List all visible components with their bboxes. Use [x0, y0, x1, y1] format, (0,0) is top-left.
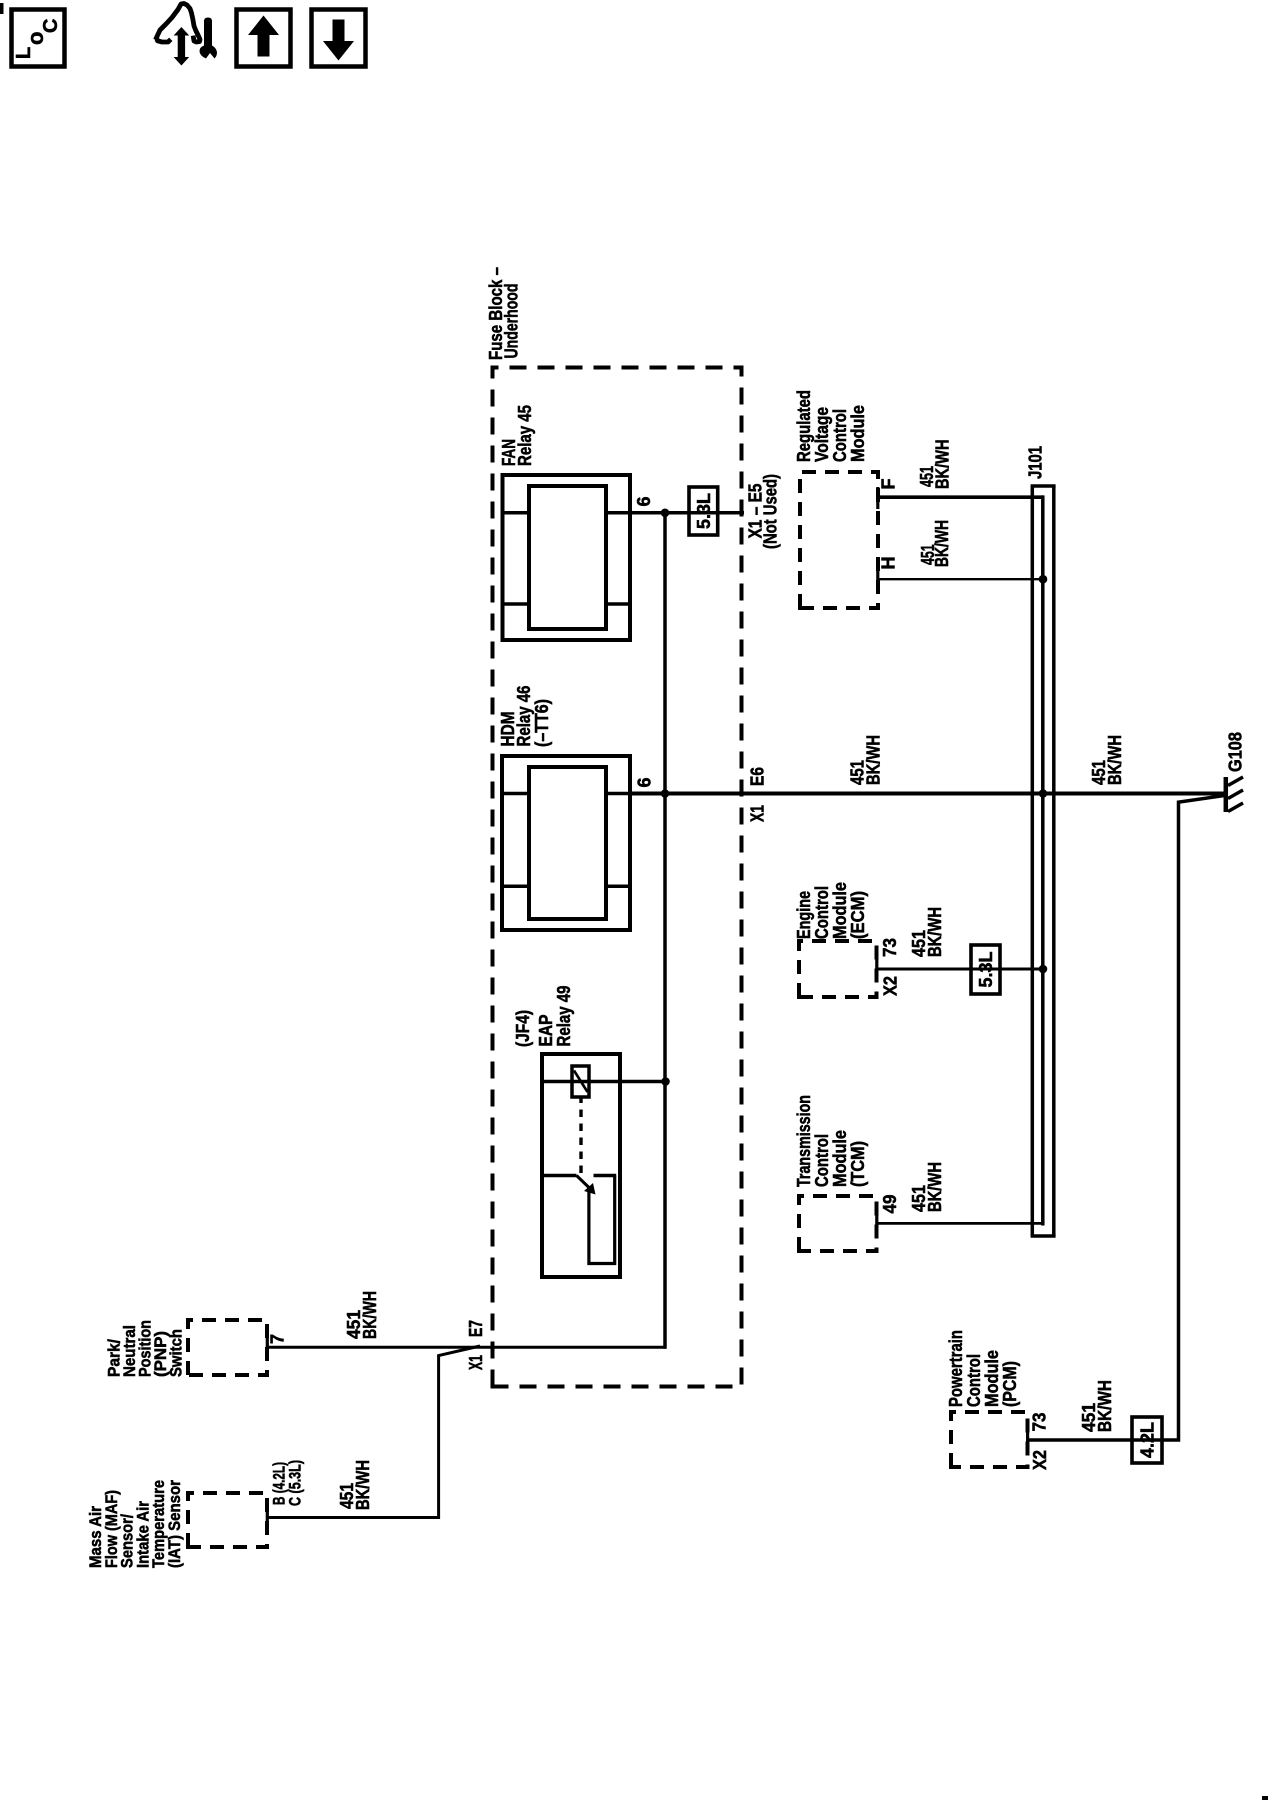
EAP relay coil-contact dashed actuator link [579, 1097, 582, 1173]
wire TCM 49 to J101 [877, 1222, 1043, 1225]
wire PNP pin 7 to fuse block E7 [267, 1346, 667, 1349]
RVCM pin F terminal tick [876, 487, 879, 509]
svg-text:C (5.3L): C (5.3L) [286, 1460, 305, 1506]
svg-text:6: 6 [635, 777, 655, 787]
svg-text:G108: G108 [1226, 732, 1246, 772]
svg-text:X1: X1 [466, 1355, 486, 1370]
scroll up icon box [237, 10, 291, 67]
svg-text:BK/WH: BK/WH [1095, 1380, 1115, 1432]
module Transmission Control Module (TCM) (dashed box) [799, 1196, 877, 1251]
junction dot HDM crossing [661, 789, 670, 798]
svg-text:7: 7 [268, 1334, 288, 1344]
relay HDM Relay 46 (outer cavity) [502, 756, 630, 930]
svg-text:Control: Control [812, 1134, 832, 1187]
svg-text:Module: Module [982, 1350, 1002, 1407]
svg-text:Control: Control [964, 1354, 984, 1407]
fuse 5.3L (FAN branch) [689, 487, 718, 535]
module Mass Air Flow (MAF) / IAT Sensor (dashed box) [188, 1493, 267, 1547]
svg-text:73: 73 [1030, 1413, 1050, 1432]
page corner mark bottom-right [1262, 1796, 1268, 1800]
relay HDM Relay 46 (body) [529, 767, 606, 919]
fuse 4.2L (PCM branch) [1132, 1417, 1162, 1463]
relay FAN Relay 45 (body) [529, 486, 606, 629]
ECM pin 73 terminal tick [875, 958, 878, 980]
svg-text:E6: E6 [748, 767, 768, 786]
svg-text:Powertrain: Powertrain [946, 1330, 966, 1407]
svg-text:(IAT) Sensor: (IAT) Sensor [165, 1480, 184, 1568]
svg-text:5.3L: 5.3L [976, 952, 996, 988]
module Park/Neutral Position (PNP) Switch (dashed box) [188, 1320, 267, 1375]
svg-text:73: 73 [880, 938, 900, 957]
svg-text:BK/WH: BK/WH [932, 520, 952, 567]
junction dot EAP branch [661, 1077, 670, 1086]
relay FAN Relay 45 (outer cavity) [503, 475, 631, 640]
svg-text:Control: Control [812, 886, 832, 939]
wire ECM 73 to J101 through 5.3L fuse [877, 968, 1044, 971]
svg-text:X2: X2 [881, 976, 901, 996]
junction dot ground wire at J101 [1039, 789, 1048, 798]
wire EAP coil to bus [542, 1080, 667, 1084]
wire FAN relay pin 6 to 5.3L fuse and X1-E5 [630, 511, 744, 515]
fuse block - underhood (dashed outline) [493, 368, 742, 1387]
scroll down icon box [312, 10, 366, 67]
wire MAF to splice on PNP wire [267, 1346, 480, 1518]
svg-text:(TCM): (TCM) [848, 1141, 868, 1187]
TCM pin 49 terminal tick [875, 1213, 878, 1235]
wire ground bus across fuse block [663, 511, 667, 1349]
svg-text:(JF4): (JF4) [513, 1010, 533, 1047]
svg-text:Underhood: Underhood [502, 284, 522, 359]
svg-text:BK/WH: BK/WH [864, 735, 884, 785]
EAP relay fixed contact and internal path [594, 1174, 617, 1177]
svg-text:Switch: Switch [167, 1329, 186, 1377]
relay EAP Relay 49 (outer box) [542, 1054, 620, 1277]
svg-text:Module: Module [830, 1130, 850, 1187]
svg-text:BK/WH: BK/WH [360, 1291, 380, 1339]
junction dot FAN branch [661, 509, 670, 518]
svg-text:F: F [879, 479, 899, 490]
svg-text:Relay 49: Relay 49 [554, 986, 574, 1047]
RVCM pin H terminal tick [876, 569, 879, 591]
svg-text:BK/WH: BK/WH [925, 1162, 945, 1212]
EAP relay contact feed [542, 1174, 577, 1177]
PNP pin 7 terminal tick [266, 1337, 269, 1359]
svg-text:C: C [40, 19, 62, 33]
svg-text:Voltage: Voltage [812, 407, 832, 462]
svg-text:E7: E7 [466, 1320, 486, 1337]
adjust tools icon (outline, double arrow, wrench) [157, 4, 201, 43]
svg-text:Relay 45: Relay 45 [515, 405, 535, 466]
PCM pin 73 terminal tick [1026, 1429, 1029, 1451]
svg-text:BK/WH: BK/WH [1105, 735, 1125, 785]
svg-text:BK/WH: BK/WH [925, 907, 945, 957]
svg-text:Module: Module [830, 882, 850, 939]
svg-text:6: 6 [634, 496, 654, 506]
page corner mark top-left [0, 3, 4, 14]
svg-text:(Not Used): (Not Used) [761, 474, 781, 549]
HDM relay terminal stubs [502, 884, 529, 888]
svg-text:Engine: Engine [794, 891, 814, 939]
svg-text:Relay 46: Relay 46 [514, 686, 534, 747]
EAP relay coil [572, 1066, 589, 1097]
svg-text:Control: Control [830, 409, 850, 462]
module Engine Control Module (ECM) (dashed box) [799, 941, 877, 997]
svg-text:Transmission: Transmission [794, 1095, 814, 1187]
svg-text:J101: J101 [1026, 446, 1046, 479]
svg-text:(ECM): (ECM) [848, 891, 868, 939]
wire PCM 73 to ground G108 through 4.2L fuse [1028, 795, 1227, 1440]
svg-text:X1: X1 [748, 805, 768, 822]
svg-text:Module: Module [848, 405, 868, 462]
junction dot ECM at J101 [1039, 965, 1048, 974]
wire RVCM F to J101 [878, 495, 1043, 499]
svg-text:(–TT6): (–TT6) [532, 699, 552, 747]
svg-text:EAP: EAP [536, 1015, 556, 1047]
wire HDM pin 6 to ground G108 [630, 791, 1226, 795]
wire RVCM H to J101 [878, 578, 1043, 580]
junction dot H at J101 [1039, 575, 1048, 584]
svg-text:X2: X2 [1030, 1450, 1050, 1470]
MAF pin terminal tick [266, 1507, 269, 1529]
LOC icon box [12, 10, 65, 67]
FAN relay terminal stubs [503, 602, 530, 606]
svg-text:5.3L: 5.3L [694, 493, 714, 529]
svg-text:49: 49 [880, 1195, 900, 1214]
fuse 5.3L (ECM branch) [971, 945, 1000, 994]
module Powertrain Control Module (PCM) (dashed box) [951, 1412, 1028, 1467]
splice pack J101 middle bus [1041, 495, 1045, 1225]
splice pack J101 rails [1031, 486, 1035, 1236]
svg-text:4.2L: 4.2L [1138, 1422, 1158, 1458]
module Regulated Voltage Control Module (dashed box) [800, 472, 878, 608]
ground G108 symbol [1224, 777, 1229, 812]
svg-text:H: H [879, 557, 899, 570]
svg-text:L: L [13, 47, 35, 59]
svg-text:Regulated: Regulated [794, 390, 814, 462]
svg-text:BK/WH: BK/WH [933, 440, 953, 490]
svg-text:BK/WH: BK/WH [353, 1460, 373, 1510]
EAP relay movable contact arm [577, 1176, 591, 1190]
svg-text:(PCM): (PCM) [1000, 1361, 1020, 1407]
